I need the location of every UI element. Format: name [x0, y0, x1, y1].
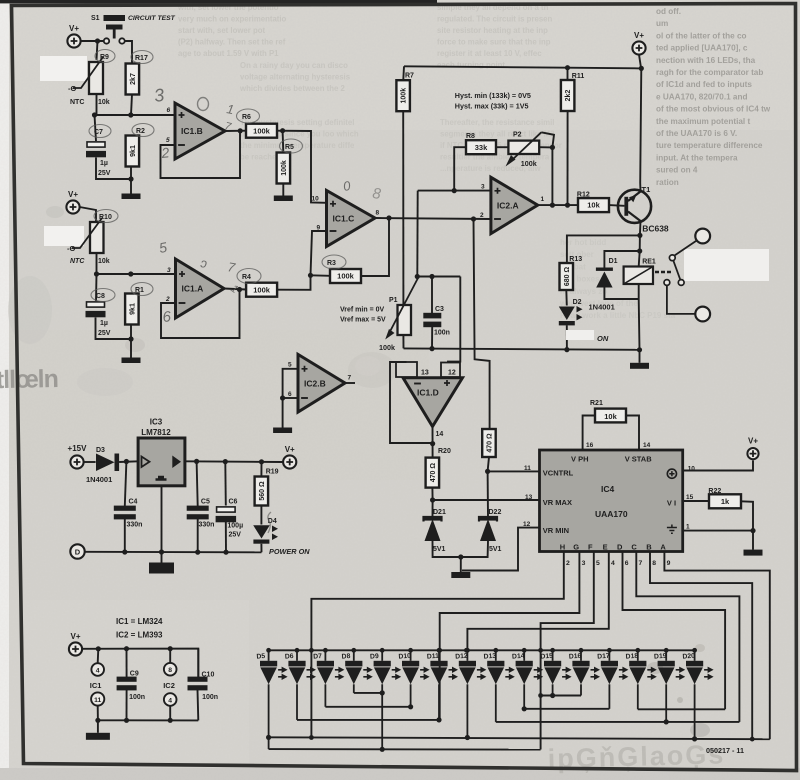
junction R6/R5	[280, 128, 285, 133]
svg-text:V+: V+	[70, 632, 80, 641]
hand ellipse around R4	[237, 269, 261, 284]
junctions on +input line (IC1.B)	[92, 112, 133, 117]
plus input IC1.D	[444, 380, 450, 386]
switch S1 pushbutton	[104, 15, 126, 44]
svg-text:25V: 25V	[98, 170, 111, 177]
bleedthrough blob bottom centre	[690, 723, 710, 737]
wire C9 top stub	[126, 649, 128, 677]
svg-text:UAA170: UAA170	[595, 509, 628, 519]
svg-text:D6: D6	[285, 653, 294, 661]
wire T1 emitter to V+ rail	[640, 68, 641, 191]
svg-text:R11: R11	[572, 73, 585, 80]
svg-text:C5: C5	[201, 499, 210, 506]
svg-text:H: H	[560, 543, 565, 552]
svg-text:14: 14	[643, 442, 651, 449]
wire cathode D7	[324, 684, 326, 707]
printed text column top-left (blurred)	[177, 3, 287, 58]
wire IC1.B noninverting input	[95, 114, 176, 116]
svg-text:D18: D18	[625, 653, 638, 661]
svg-text:C10: C10	[202, 671, 215, 678]
wire IC2.A output to R12	[538, 204, 578, 206]
wire cathode D9 (continues deep)	[381, 684, 383, 749]
wire node to C8	[95, 274, 98, 301]
wire IC3 ground stem	[161, 486, 163, 552]
wire R9 to +input node	[96, 94, 98, 115]
wire T1 collector down	[639, 221, 642, 251]
wire V+ terminal stub	[639, 55, 641, 69]
svg-text:5V1: 5V1	[489, 546, 502, 553]
IC U4 box (UAA170)	[540, 450, 683, 552]
ground (sensor block 2)	[122, 356, 141, 363]
junction IC2.B inputs	[280, 395, 285, 400]
junction D5 on long line	[266, 735, 271, 740]
wire pin 4 (E) route	[467, 552, 608, 651]
wire anode stub D12	[466, 650, 468, 661]
resistor R2 (9k1)	[126, 136, 140, 167]
svg-text:R5: R5	[285, 144, 294, 151]
resistor R17 (2k7)	[126, 64, 140, 95]
svg-text:IC2: IC2	[163, 681, 175, 690]
capacitor C7 (1u 25V)	[86, 142, 106, 157]
svg-text:IC1.C: IC1.C	[333, 214, 355, 224]
plus input IC1.A	[179, 271, 185, 277]
svg-text:D7: D7	[313, 653, 322, 661]
wire cathode D18	[637, 684, 639, 709]
capacitor C5 (330n)	[187, 506, 209, 520]
wire cathode D15	[552, 684, 554, 695]
wire ground rail (P1/C3/D2/relay)	[404, 348, 640, 349]
wire IC1.D output	[432, 427, 434, 458]
svg-text:VR MIN: VR MIN	[543, 526, 569, 535]
wire wiper net to IC1.D pin 12	[448, 277, 460, 378]
wire R23 to VCNTRL node	[488, 457, 489, 471]
white-out patch over relay contact area	[684, 249, 769, 281]
wire anode stub D10	[410, 650, 412, 661]
LED D13	[487, 661, 515, 685]
outer margin bottom	[0, 768, 800, 780]
svg-text:D14: D14	[512, 653, 525, 661]
resistor R8 (33k)	[466, 140, 496, 154]
svg-text:6: 6	[625, 560, 629, 567]
resistor R21 (10k)	[595, 409, 626, 423]
wire R10 to +input node 2	[96, 253, 98, 274]
svg-text:IC1.B: IC1.B	[181, 126, 203, 136]
terminal V+ (opamp supply)	[69, 632, 82, 656]
svg-text:IC1: IC1	[90, 681, 102, 690]
resistor R23 (470 Ohm)	[482, 429, 496, 457]
wire pin 7 (C) route	[636, 552, 739, 722]
junction IC1.B output	[238, 128, 243, 133]
wire IC3 output rail	[185, 460, 283, 463]
wire C8 to ground node 2	[96, 318, 132, 340]
svg-text:8: 8	[168, 667, 172, 674]
wire pin 8 (B) route	[650, 552, 752, 740]
svg-text:11: 11	[94, 697, 101, 704]
svg-text:P2: P2	[513, 131, 522, 138]
svg-text:R12: R12	[577, 192, 590, 199]
svg-text:V+: V+	[285, 445, 295, 454]
junctions on ground rail	[429, 346, 642, 352]
svg-text:IC4: IC4	[601, 484, 615, 494]
junction R23/D22/VCNTRL	[485, 469, 490, 474]
wire IC1.B output	[225, 130, 246, 132]
wire anode stub D6	[296, 650, 298, 661]
wire R19 to D4	[260, 506, 262, 525]
wire anode stub D5	[268, 650, 270, 661]
junctions on bottom rail	[122, 549, 228, 554]
svg-text:330n: 330n	[199, 522, 215, 529]
wire IC1.A output	[224, 289, 246, 290]
wire anode stub D19	[665, 650, 667, 661]
svg-text:RE1: RE1	[642, 259, 656, 266]
svg-text:R17: R17	[135, 55, 148, 62]
junctions on IC2.A output (P2, R11)	[550, 203, 570, 208]
terminal V+ (IC4 supply)	[747, 437, 758, 460]
svg-text:100µ: 100µ	[227, 523, 243, 530]
junction R20/D21/VRMAX	[430, 497, 435, 502]
printed text right column (more visible)	[656, 7, 771, 187]
svg-text:R22: R22	[708, 488, 721, 495]
paper tone variation bottom-left	[9, 600, 249, 768]
faint bleedthrough right column lower	[559, 238, 676, 320]
svg-text:V STAB: V STAB	[625, 455, 653, 464]
resistor R3 (100k)	[330, 269, 361, 283]
wire R17 to +input node	[131, 94, 132, 115]
wire anode stub D8	[353, 650, 355, 661]
LED D5	[260, 661, 288, 685]
wire C3 bottom to ground rail	[431, 327, 433, 349]
junction C8/R1	[128, 336, 133, 341]
minus input IC2.A	[494, 218, 501, 220]
svg-text:100n: 100n	[434, 330, 450, 337]
wire pin 10 to V+ terminal	[683, 460, 753, 470]
svg-text:1: 1	[686, 524, 690, 531]
wire to D1 top	[604, 251, 639, 268]
relay linkage dashes	[655, 271, 671, 273]
op-amp IC1.A	[176, 259, 225, 318]
resistor R6 (100k)	[246, 124, 277, 138]
resistor R22 (1k)	[709, 494, 741, 508]
junction D11 pair	[436, 717, 441, 722]
svg-text:3: 3	[582, 560, 586, 567]
svg-text:D11: D11	[427, 653, 440, 661]
hand ellipse around R2	[132, 124, 154, 137]
wire R22 to ground node	[741, 501, 753, 530]
zener diode D22 (5V1)	[479, 517, 497, 541]
op-amp IC2.A	[491, 177, 538, 233]
svg-text:100n: 100n	[129, 694, 145, 701]
junctions wiper net	[415, 274, 435, 279]
wire R4 to R3 node	[277, 275, 311, 290]
wire pin 2 (H) route	[311, 552, 563, 738]
junction IC1.C output	[386, 215, 391, 220]
svg-text:D16: D16	[569, 653, 582, 661]
terminal V+ (after regulator)	[283, 445, 296, 469]
svg-text:D20: D20	[682, 653, 695, 661]
ground (relay rail)	[630, 350, 649, 369]
svg-text:11: 11	[524, 465, 531, 472]
wire anode stub D11	[438, 650, 440, 661]
plus symbol inside IC4 (pin 10)	[667, 469, 676, 478]
plus input IC1.C	[330, 201, 336, 207]
junction collector/R13 branch	[637, 233, 642, 238]
svg-text:100k: 100k	[253, 126, 271, 135]
junction D9 pair	[380, 690, 385, 695]
svg-text:680 Ω: 680 Ω	[564, 267, 571, 287]
op-amp IC1.B	[175, 103, 225, 159]
junction D15 pair	[550, 693, 555, 698]
terminal D (output)	[70, 544, 84, 558]
svg-text:1N4001: 1N4001	[86, 475, 112, 484]
svg-text:IC2 = LM393: IC2 = LM393	[116, 631, 163, 640]
wire ground rail (opamp supply)	[98, 719, 198, 721]
junction IC2.A minus / R23 branch	[471, 216, 476, 221]
wire IC1.A feedback loop	[161, 290, 240, 339]
svg-text:10: 10	[312, 196, 320, 203]
svg-text:V+: V+	[748, 437, 758, 446]
svg-text:IC2.A: IC2.A	[497, 201, 519, 211]
junctions on +input line (IC1.A)	[94, 271, 133, 276]
wire R7 top stub	[402, 66, 405, 79]
resistor R20 (470 Ohm)	[426, 458, 440, 488]
svg-text:C6: C6	[229, 499, 238, 506]
svg-text:D10: D10	[398, 653, 411, 661]
ground (zeners)	[451, 557, 470, 578]
junction R3/R4 node	[308, 273, 313, 278]
junction R8 on +input	[452, 188, 457, 193]
svg-text:LM7812: LM7812	[141, 428, 171, 437]
LED D17	[601, 661, 629, 685]
wire D22 top stub	[487, 471, 489, 516]
wire R8 to P2	[496, 146, 508, 148]
wire R7 to P1	[402, 112, 404, 305]
svg-text:D19: D19	[654, 653, 667, 661]
plus input IC2.B	[302, 366, 308, 372]
svg-text:D22: D22	[489, 509, 502, 516]
scan edge black strip top	[0, 0, 437, 3]
resistor R7 (100k)	[396, 80, 410, 111]
wire C4 to bottom rail	[124, 519, 126, 552]
wire cathode D13	[495, 684, 497, 722]
svg-text:1: 1	[541, 196, 545, 203]
stain dots near C7	[125, 338, 145, 352]
resistor R13 (680 Ohm)	[560, 263, 574, 290]
svg-text:5: 5	[166, 137, 170, 144]
stain blotch near IC2.B	[348, 352, 396, 388]
wire D1 bottom to RE1 bottom	[604, 288, 638, 300]
relay contact terminal A	[695, 229, 710, 244]
wire IC2.B output stub	[345, 382, 355, 384]
terminal V+ (sensor block 2)	[66, 190, 79, 214]
LED D4 (POWER ON)	[253, 525, 278, 544]
wire R11 to IC2.A output	[567, 111, 569, 205]
svg-text:050217 - 11: 050217 - 11	[706, 746, 744, 755]
svg-text:F: F	[588, 543, 593, 552]
svg-text:IC1 = LM324: IC1 = LM324	[116, 617, 163, 626]
capacitor C3 (100n)	[423, 313, 441, 327]
junction pin1/R22 ground	[750, 528, 755, 533]
svg-text:2k7: 2k7	[130, 73, 137, 85]
svg-text:CIRCUIT TEST: CIRCUIT TEST	[128, 15, 176, 22]
wire R3 right to IC1.C output	[361, 218, 389, 276]
svg-text:D17: D17	[597, 653, 610, 661]
svg-text:T1: T1	[642, 185, 651, 194]
wire pin 14 to R21	[626, 416, 639, 451]
LED D9	[374, 661, 402, 685]
junctions on output rail	[194, 459, 264, 465]
wire R12 to T1 base	[609, 204, 624, 207]
junction D10 pair	[408, 704, 413, 709]
wire R23 riser from IC2.A minus	[474, 219, 490, 429]
svg-text:Hyst. min (133k) = 0V5: Hyst. min (133k) = 0V5	[455, 91, 531, 100]
svg-text:-Θ: -Θ	[67, 244, 75, 253]
resistor R1 (9k1)	[125, 294, 139, 325]
LED D6	[288, 661, 316, 685]
printed text column top-left lines 2	[239, 61, 351, 93]
capacitor C8 (1u 25V)	[86, 302, 106, 317]
svg-text:BC638: BC638	[642, 224, 669, 234]
LED D15	[544, 661, 572, 685]
wire IC2 pin4 to ground rail	[169, 706, 171, 721]
resistor R19 (560 Ohm)	[255, 477, 269, 506]
ground (IC3 block)	[149, 552, 174, 574]
terminal V+ (top right)	[632, 31, 645, 55]
hand ellipse around R5	[280, 139, 303, 153]
svg-text:V+: V+	[634, 31, 644, 40]
resistor R12 (10k)	[578, 198, 609, 212]
svg-text:IC1.D: IC1.D	[417, 388, 439, 398]
svg-text:POWER ON: POWER ON	[269, 547, 310, 556]
svg-text:V+: V+	[68, 190, 78, 199]
svg-text:V I: V I	[667, 499, 676, 508]
wire anode stub D13	[495, 650, 497, 661]
svg-text:R8: R8	[466, 133, 475, 140]
LED D11	[430, 661, 458, 685]
wire long cathode line (D5,D12,D20)	[269, 737, 770, 739]
wire VCNTRL to IC4 pin 11	[488, 470, 540, 472]
wire R11 top stub	[567, 68, 569, 81]
wire IC1.D feedback	[390, 362, 433, 443]
wire C10 to ground rail	[197, 690, 200, 720]
LED D16	[572, 661, 600, 685]
junction top rail / R11	[565, 65, 570, 70]
wire anode stub D9	[381, 650, 383, 661]
svg-text:1N4001: 1N4001	[589, 303, 615, 312]
printed text fragments centre	[440, 118, 562, 173]
LED D20	[686, 661, 714, 685]
junction D14 pair	[522, 706, 527, 711]
svg-text:7: 7	[348, 375, 352, 382]
white-out patch left 2	[44, 226, 84, 246]
wire lowest cathode line (D5-D9 deep)	[269, 748, 541, 751]
svg-text:16: 16	[586, 442, 594, 449]
capacitor C4 (330n)	[114, 506, 136, 520]
svg-text:R7: R7	[405, 73, 414, 80]
wire P2 wiper to right terminal	[541, 132, 554, 147]
IC4 bottom pin letters	[560, 543, 667, 552]
svg-text:2: 2	[165, 296, 170, 303]
svg-text:Hyst. max (33k) = 1V5: Hyst. max (33k) = 1V5	[455, 102, 529, 111]
svg-text:IC3: IC3	[150, 418, 163, 427]
wire pin 15 to R22	[683, 500, 709, 502]
junction D12 on long line	[465, 735, 470, 740]
wire R20 to VRMAX node	[431, 488, 433, 500]
wire C6 stub	[224, 462, 227, 506]
wire IC1.B feedback loop	[161, 131, 241, 178]
hand ellipse around R10	[94, 210, 118, 223]
svg-text:R21: R21	[590, 400, 603, 407]
svg-text:2: 2	[566, 560, 570, 567]
wire C10 top stub	[197, 649, 199, 677]
wire C3 top stub	[431, 277, 433, 314]
LED D10	[402, 661, 430, 685]
ground (opamp supply)	[86, 720, 110, 740]
ground (sensor block 1)	[122, 192, 141, 199]
junction D20 on long line	[692, 736, 697, 741]
wire cathode D17	[608, 684, 610, 709]
wire IC2 pin8 stub	[169, 649, 171, 663]
svg-text:B: B	[646, 543, 652, 552]
zener diode D21 (5V1)	[424, 517, 442, 541]
wire node to R3 left	[311, 274, 331, 277]
svg-text:C4: C4	[129, 499, 138, 506]
svg-text:1µ: 1µ	[100, 320, 108, 327]
svg-text:G: G	[573, 543, 579, 552]
wire anode stub D18	[637, 650, 639, 661]
svg-text:2k2: 2k2	[565, 90, 572, 102]
svg-text:13: 13	[421, 370, 429, 377]
svg-text:-Θ: -Θ	[68, 84, 76, 93]
wire cathode line D18 to pin4 riser	[638, 708, 725, 710]
svg-text:5: 5	[288, 362, 292, 369]
wire IC1.C output to IC2.A minus	[375, 218, 491, 219]
wire R5 to ground	[282, 184, 284, 194]
capacitor C9 (100n)	[117, 677, 137, 691]
paper tone variation top	[9, 0, 800, 130]
capacitor C10 (100n)	[188, 677, 208, 691]
hand ellipse around R1	[131, 283, 153, 296]
junction C4/input	[124, 459, 129, 464]
wire anode stub D7	[324, 650, 326, 661]
hand ellipse around R3	[322, 255, 346, 269]
svg-text:3: 3	[481, 184, 485, 191]
LED D18	[629, 661, 657, 685]
junction D9 on lowest line	[380, 747, 385, 752]
pin circle 11 of IC1	[91, 692, 104, 705]
svg-text:C: C	[631, 543, 637, 552]
hand ellipse around R6	[237, 109, 260, 123]
svg-text:D1: D1	[609, 258, 618, 265]
svg-text:25V: 25V	[98, 330, 111, 337]
thermistor R10 (NTC 10k)	[72, 218, 104, 253]
svg-text:C3: C3	[435, 306, 444, 313]
svg-text:R4: R4	[242, 274, 251, 281]
junction D19 on line	[664, 719, 669, 724]
pin box 13 of IC1.D	[396, 362, 417, 377]
svg-text:6: 6	[288, 391, 292, 398]
svg-text:D21: D21	[433, 509, 446, 516]
svg-text:NTC: NTC	[70, 99, 84, 106]
minus input IC2.B	[301, 397, 308, 399]
svg-text:10: 10	[688, 466, 696, 473]
svg-text:+15V: +15V	[68, 444, 88, 453]
svg-text:10k: 10k	[98, 99, 110, 106]
junction P2 wiper	[550, 145, 555, 150]
terminal V+ (sensor block 1)	[67, 24, 80, 48]
potentiometer P1 (100k)	[385, 278, 418, 340]
wire anode stub D17	[608, 650, 610, 661]
pin circle 8 of IC2	[164, 663, 177, 676]
